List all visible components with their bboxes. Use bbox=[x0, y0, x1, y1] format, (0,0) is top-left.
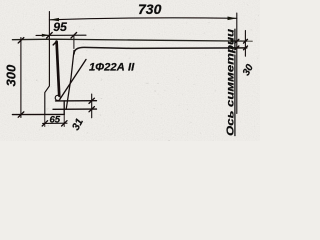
svg-text:730: 730 bbox=[138, 1, 162, 17]
svg-text:300: 300 bbox=[4, 64, 19, 86]
svg-text:65: 65 bbox=[50, 115, 61, 126]
svg-text:Ось симметрии: Ось симметрии bbox=[225, 29, 236, 136]
svg-text:1Ф22А II: 1Ф22А II bbox=[89, 62, 135, 74]
svg-text:95: 95 bbox=[53, 20, 67, 34]
